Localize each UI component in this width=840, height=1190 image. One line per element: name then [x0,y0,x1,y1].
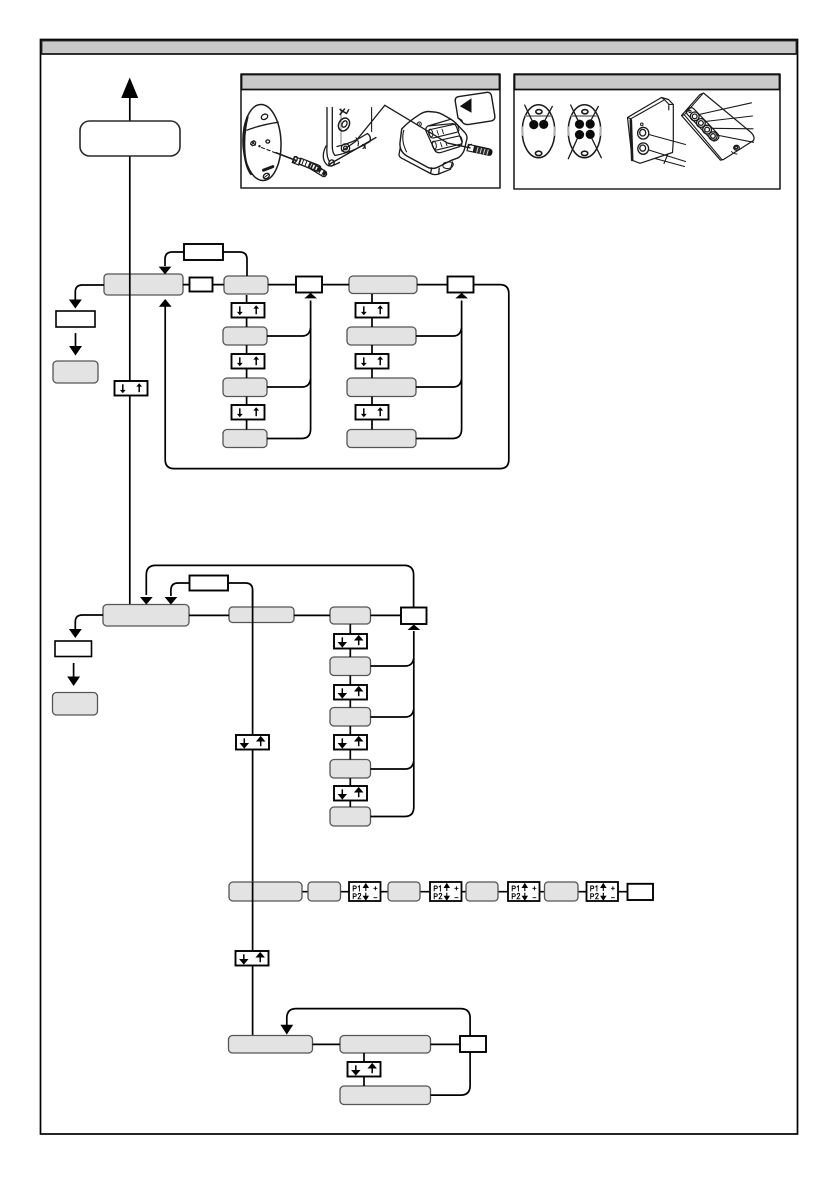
panel B header bar [515,75,780,90]
remote D leader 1 [699,103,752,115]
panel B frame [514,74,780,189]
wire bottom loop arc [287,1009,470,1096]
node submenu2-2 gray [330,607,371,624]
remote 2 button tr [586,119,595,128]
plate small dot [258,145,260,147]
remote C thick edge [631,120,632,160]
arrowhead return1 up [304,293,317,299]
remote D leader 2 [705,116,753,122]
crossed remote 1 oval [522,105,555,158]
wire top loop left arrow into menu1 [165,252,184,266]
node submenu2-1 gray [229,607,294,623]
updown box c2e [356,405,389,420]
wire outer loop1 [165,285,509,469]
arrowhead return2 up [455,293,468,299]
remote D button 3 [703,125,712,134]
remote D body [682,93,755,160]
node ok box2 [296,277,322,293]
battery cover inner curve [458,118,462,122]
node lr4 gray [466,882,498,901]
node bg2 gray [340,1036,431,1054]
wire row2 segments [189,614,401,616]
screwdriver 1 handle [299,158,322,171]
screwdriver 3 handle [474,146,493,156]
node menu2 main gray box [103,605,189,627]
wire main vertical line top [129,98,131,604]
wire t2 right [228,583,253,607]
node display gray box1 [53,361,98,383]
updown box m4 [348,1062,381,1077]
remote 2 chord [572,115,597,117]
screwdriver 1 ferrule [292,156,301,165]
p1p2 box 1 [349,882,381,901]
arm band [335,134,370,156]
arm clip [363,144,366,149]
crossed remote 2 oval [568,105,601,158]
oval plate left shade [244,117,251,174]
arm diagonal upper [342,105,385,151]
remote 1 bottom hole [535,151,541,155]
p1p2 box 2 [430,882,462,901]
updown box main2 [236,735,269,750]
wire big loop2 [146,565,413,607]
remote D leader 3 [711,127,753,130]
node value2-2 gray [347,378,416,397]
remote base plinth [399,148,453,175]
wire return2 vertical [416,301,462,439]
wire return1 joiner a [267,328,311,336]
wire main line bottom [252,901,254,1035]
arm ring [341,144,349,152]
node exit rounded box [80,121,180,156]
updown box main1 [115,381,148,396]
arrowhead return3 up [408,625,421,631]
node value1-1 gray [223,327,267,345]
node value2-3 gray [347,430,416,448]
remote 2 cross legs [568,105,601,159]
arm lower outline [329,138,376,165]
right guide line [371,108,373,132]
wire return3 joiner b [371,709,414,717]
node param4 gray [330,807,371,826]
wire return2 joiner b [416,379,462,387]
screwdriver 1 shaft [276,153,296,161]
post foot [323,146,339,166]
remote body outline [400,111,467,168]
arrowhead esc2 down [67,677,80,687]
battery cover arrow [460,98,472,113]
node display gray box2 [53,693,98,716]
wire return3 joiner c [371,761,414,769]
plate dashed line [262,148,276,153]
updown box main3 [236,951,269,966]
remote compartment [426,119,462,152]
p1p2 box 3 [508,882,540,901]
node bg1 gray [229,1036,313,1054]
wire return3 joiner a [371,658,414,666]
arrowhead loop2 into menu2 [140,597,153,605]
remote D button 1 [690,112,699,121]
node value1-2 gray [223,378,267,397]
node param2 gray [330,708,371,727]
ring icon [336,116,352,133]
updown box d1 [334,634,367,649]
arrowhead into esc box [69,300,82,309]
arrowhead into menu1 top [159,267,172,275]
battery 2 [431,136,462,150]
post left line [327,108,330,162]
node bg3 gray [340,1086,431,1105]
arrowhead esc down [69,346,82,356]
remote C button 1 [638,127,649,139]
screwdriver 2 handle [309,163,328,177]
remote D edge lines [682,94,723,160]
node param1 gray [330,657,371,676]
updown box c1e [232,405,265,420]
wire top loop right to submenu1-1 [224,252,248,276]
oval back plate [242,104,283,181]
foot screw [328,159,335,167]
panel A frame [241,74,500,188]
wire return1 vertical [267,301,311,439]
p1p2 box 4 [587,882,619,901]
post inner line [340,109,342,145]
panel A header bar [242,75,500,90]
remote 2 button tl [575,120,584,129]
post right line [332,108,335,156]
wire through line sec2 [252,590,254,882]
updown box c2a [356,303,389,318]
oval plate top hole [260,113,268,121]
battery 1 [428,124,459,138]
remote D button strip [686,108,719,141]
wire esc down arrow [75,333,77,347]
remote body left face line [403,130,407,152]
wire chain2 connectors [371,294,373,430]
remote screw dot [417,122,421,126]
wire left branch2 [75,615,103,630]
remote D leader 4 [717,135,754,142]
updown box c1a [232,303,265,318]
remote 1 top hole [536,110,542,114]
node p3-label box2 [190,576,229,591]
node submenu1-2 gray [349,276,417,294]
node esc box1 [56,311,95,327]
updown box d2 [334,685,367,700]
node esc box2 [55,641,92,657]
remote D button 2 [697,119,706,128]
remote 2 bottom hole [581,151,587,155]
screwdriver 3 shaft [448,143,470,148]
wire chain3 connectors [349,624,351,807]
updown box c2c [356,354,389,369]
wire longrow segments [302,891,628,893]
remote 1 oval gray side patches [522,128,554,135]
arrowhead bottom loop into bg1 [280,1025,293,1035]
leader line to remote [385,105,448,143]
wire bottom row segments [313,1043,461,1045]
remote D strip dot [689,110,691,112]
wire return3 vertical [371,631,414,817]
arrowhead exit top [121,78,138,99]
plate small hole [266,140,270,143]
wire return1 joiner b [267,379,311,387]
node lr3 gray [388,882,420,901]
wire left branch curve [75,285,104,300]
remote base notch [443,162,453,169]
plate screw head [251,141,256,146]
top title bar [42,41,797,55]
oval plate chord line [247,122,278,130]
wire chain1 connectors [246,295,248,430]
remote 2 button bl [575,130,584,139]
remote 1 cross legs [525,105,553,120]
remote D button 4 [709,132,717,140]
remote 1 button left [529,120,538,129]
hook icon [340,109,349,115]
remote C small dot [641,123,644,126]
remote 2 button br [586,130,595,139]
remote 1 button right [539,120,548,129]
battery cover [455,92,495,124]
updown box d4 [334,786,367,801]
node lr1 gray [229,882,302,901]
remote 2 top hole [582,110,588,114]
screwdriver 3 ferrule [467,144,475,152]
plate bottom slot [264,167,273,171]
remote C leader 2 [649,150,686,162]
wire return2 joiner a [416,328,462,336]
remote 2 oval gray side patches [568,128,600,135]
updown box c1c [232,354,265,369]
arrowhead into esc box2 [69,629,82,638]
plate bottom hole [262,172,270,180]
node lr2 gray [308,882,341,901]
remote C top edge [628,98,674,161]
node value1-3 gray [223,430,267,448]
node value2-1 gray [347,327,416,345]
node menu1 main gray box [104,274,183,295]
node submenu1-1 gray [224,276,268,294]
node p3-label box [184,244,223,260]
remote C body [628,98,674,164]
remote C leader 3 [655,155,685,167]
node ok box5 [460,1036,486,1052]
remote 1 chord [526,115,551,117]
wire t2 left arrow [171,583,190,596]
node ok box3 [448,277,474,293]
updown box d3 [334,735,367,750]
arrowhead t2 into menu2 [165,597,178,605]
wire esc2 down arrow [73,663,75,677]
wire bg2 to m4 to bg3 [363,1053,365,1086]
node ok box1 [190,278,213,292]
remote C button 2 [638,143,649,154]
node ok box4 [401,608,427,625]
node lr5 gray [545,882,579,901]
node end white box [628,884,654,900]
arrowhead loop1 into menu1 bottom [159,299,172,307]
wire through lr1 [252,882,254,901]
node param3 gray [330,760,371,779]
remote C leader 1 [649,135,686,145]
wire row1 segments [183,284,448,286]
remote D bottom button [732,145,740,154]
